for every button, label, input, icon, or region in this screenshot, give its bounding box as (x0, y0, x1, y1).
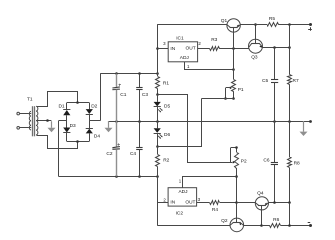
transistor Q4 (255, 190, 268, 210)
resistor R2 (156, 147, 170, 177)
svg-text:R8: R8 (294, 160, 300, 166)
diode D4 (86, 121, 101, 142)
svg-text:C5: C5 (262, 78, 268, 84)
wire R6 to minus (281, 225, 311, 227)
capacitor C5 (262, 48, 278, 122)
svg-text:R7: R7 (293, 78, 299, 84)
svg-text:D4: D4 (94, 134, 100, 140)
resistor R8 (288, 121, 301, 203)
wire bottom rail left (157, 225, 230, 227)
svg-text:OUT: OUT (186, 46, 196, 52)
node gnd C5 (273, 120, 276, 123)
wire IC1 IN (157, 48, 168, 50)
wire secondary top to bridge (37, 92, 78, 107)
node bridge top center (76, 101, 79, 104)
svg-text:IC2: IC2 (176, 211, 184, 217)
svg-text:Q4: Q4 (257, 190, 264, 196)
node C4 bottom (138, 175, 141, 178)
svg-text:P1: P1 (238, 87, 244, 93)
ground center tap (48, 121, 56, 132)
capacitor C2 (106, 121, 120, 176)
node Q3 rail (254, 23, 257, 26)
ground right (300, 121, 308, 136)
input terminal J2 (17, 127, 29, 130)
wire Q3 top (255, 25, 257, 40)
input terminal J1 (17, 112, 29, 115)
resistor R4 (210, 201, 220, 214)
node C5 tap (273, 46, 276, 49)
wire minus drop (58, 121, 60, 177)
node C3 top (138, 72, 141, 75)
wire ground rail (108, 121, 311, 123)
svg-text:C4: C4 (130, 151, 136, 157)
wire bridge bottom rail (67, 141, 90, 143)
node P2-ADJ2 (235, 175, 238, 178)
svg-text:D5: D5 (164, 104, 170, 110)
node IN tap (156, 47, 159, 50)
svg-text:C6: C6 (263, 157, 269, 163)
svg-text:R1: R1 (163, 80, 169, 86)
wire plus riser (100, 74, 102, 121)
wire rail Q1-R5 (240, 24, 267, 26)
diode D1 (58, 103, 70, 121)
svg-text:D1: D1 (58, 104, 64, 110)
wire Q4 base (261, 210, 263, 225)
wire Q4 emitter (268, 202, 289, 204)
diode D3 (63, 121, 76, 142)
node center tap (46, 119, 49, 122)
regulator IC2 (163, 178, 200, 216)
node P2 top (235, 146, 238, 149)
node Q2 base tap (235, 201, 238, 204)
resistor R7 (288, 25, 299, 122)
wire IC1 OUT (198, 48, 210, 50)
node R1 top (156, 72, 159, 75)
wire bridge minus midpoint (59, 120, 67, 122)
wire Q1 base (233, 32, 235, 48)
svg-text:ADJ: ADJ (178, 189, 188, 195)
node R2 bottom (156, 175, 159, 178)
svg-text:C3: C3 (142, 92, 148, 98)
node P1 wiper (224, 97, 227, 100)
svg-text:D3: D3 (70, 123, 76, 129)
potentiometer P2 (231, 148, 247, 203)
node C6 bottom (273, 201, 276, 204)
node C1 top (115, 72, 118, 75)
capacitor C4 (130, 121, 143, 176)
capacitor C3 (136, 74, 148, 121)
node gnd R7 (288, 120, 291, 123)
wire IC1 ADJ (185, 62, 234, 70)
svg-text:T1: T1 (27, 96, 33, 102)
transformer T1 (27, 96, 38, 136)
capacitor C1 (112, 74, 126, 121)
node gnd C1 (115, 120, 118, 123)
wire secondary center tap (36, 120, 51, 122)
svg-text:D6: D6 (164, 132, 170, 138)
svg-text:OUT: OUT (185, 200, 195, 206)
wire R3 to Q3 (219, 48, 249, 50)
transistor Q3 (249, 39, 263, 60)
wire IC2 OUT (197, 202, 210, 204)
potentiometer P1 (226, 70, 244, 99)
wire Q2base-Q4 (237, 202, 256, 204)
node P1 bottom (232, 97, 235, 100)
resistor R5 (268, 16, 279, 26)
wire R4 to Q2 base (220, 202, 237, 204)
svg-text:ADJ: ADJ (180, 55, 190, 61)
wire +V rail (100, 73, 157, 75)
wire top rail left (157, 24, 227, 26)
resistor R6 (270, 217, 281, 228)
svg-text:R6: R6 (273, 217, 279, 223)
wire IC2 ADJ (183, 177, 237, 188)
node C2 bottom (115, 175, 118, 178)
ground left (105, 121, 113, 132)
wire Q4base to R6 (262, 225, 270, 227)
wire R1-D5 to P2 wiper (158, 95, 236, 164)
wire R8 drop (289, 203, 291, 226)
LED D5 (154, 95, 171, 121)
wire Q1 base lower (233, 48, 235, 69)
node R1-D5 (156, 93, 159, 96)
svg-text:Q1: Q1 (221, 18, 228, 24)
svg-text:C2: C2 (106, 151, 112, 157)
svg-text:3: 3 (198, 197, 201, 202)
diode D2 (86, 103, 98, 121)
svg-text:C1: C1 (120, 92, 126, 98)
svg-text:P2: P2 (241, 159, 247, 165)
wire IC2 IN (157, 202, 168, 204)
transistor Q1 (221, 18, 241, 32)
node Q1 base tap (232, 47, 235, 50)
svg-text:R2: R2 (163, 157, 169, 163)
node R8 bottom (288, 224, 291, 227)
wire Q2 to Q4base (243, 225, 262, 227)
node gnd end (309, 120, 312, 123)
regulator IC1 (163, 35, 201, 69)
wire -V rail (59, 176, 158, 178)
wire bridge plus midpoint (89, 120, 100, 122)
node R7 tap (288, 46, 291, 49)
wire primary bottom (29, 127, 31, 129)
node bridge bottom center (76, 140, 79, 143)
transistor Q2 (221, 218, 244, 232)
node Q4 base bottom (260, 224, 263, 227)
wire Q2 base (236, 203, 238, 218)
svg-text:R5: R5 (269, 16, 275, 22)
svg-text:R3: R3 (211, 37, 217, 43)
capacitor C6 (263, 121, 278, 203)
node D6-R2 (156, 145, 159, 148)
svg-text:IN: IN (170, 200, 175, 206)
node gnd C3 (138, 120, 141, 123)
resistor R3 (210, 37, 220, 50)
wire P1 to D6-R2 (158, 99, 234, 147)
LED D6 (154, 121, 171, 147)
wire rail R5-plus (278, 24, 311, 26)
svg-text:IN: IN (170, 46, 175, 52)
wire primary top (29, 113, 31, 115)
terminal - output (308, 223, 312, 228)
wire bridge top rail (67, 102, 90, 104)
svg-text:R4: R4 (212, 207, 218, 213)
resistor R1 (156, 74, 170, 95)
svg-text:Q2: Q2 (221, 218, 228, 224)
node ADJ-P1 (232, 68, 235, 71)
wire secondary bottom to bridge (37, 136, 78, 149)
node R8-Q4 (288, 201, 291, 204)
node R7 rail (288, 23, 291, 26)
svg-text:Q3: Q3 (251, 55, 258, 61)
wire IN riser (157, 25, 159, 74)
wire IC2 IN riser (157, 176, 159, 225)
svg-text:D2: D2 (91, 104, 97, 110)
svg-text:IC1: IC1 (176, 35, 184, 41)
terminal + output (308, 23, 312, 31)
node gnd D5 (156, 120, 159, 123)
wire Q3 emitter (262, 47, 289, 49)
